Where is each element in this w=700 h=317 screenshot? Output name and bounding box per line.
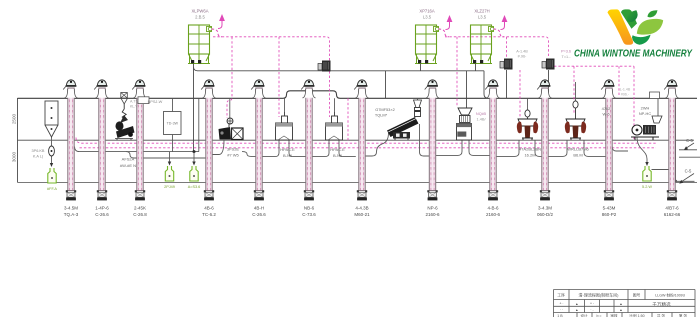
airlock ZK4 (green) [643,166,651,181]
elevator E11 boot [604,190,606,192]
dust filter F1 [189,25,210,54]
svg-text:47A2BL2BN: 47A2BL2BN [519,147,541,152]
svg-text:审核: 审核 [610,313,618,317]
svg-text:#FF.A: #FF.A [47,187,57,191]
svg-text:16.2M: 16.2M [524,153,535,158]
svg-text:2.B.5: 2.B.5 [195,15,205,20]
purifier P1 [282,116,288,123]
elevator E1 neck flare [64,89,77,98]
destoner outlets [436,139,490,155]
exhaust arrow 1 (magenta) [219,14,225,21]
svg-text:BPSJ-W: BPSJ-W [148,99,163,104]
duct drop to separator [385,71,387,99]
purifier2 outlets [312,140,356,157]
elevator E5 neck flare [252,89,265,98]
airlock ZK3 (green) [190,166,198,181]
svg-text:比例 1:50: 比例 1:50 [629,313,644,317]
col11 to fan pipe [612,147,628,152]
svg-text:4-4.3B: 4-4.3B [355,206,368,211]
svg-text:2160-6: 2160-6 [486,212,501,217]
aspiration drop to purifier 1 [278,37,280,117]
mill B1 feed spout [229,98,231,118]
elevator E11 neck flare [602,89,615,98]
svg-text:2-45K: 2-45K [134,206,146,211]
elevator E5 boot [254,190,256,192]
svg-text:L-1.4B: L-1.4B [620,88,631,92]
svg-text:WRLLB7M6: WRLLB7M6 [567,147,589,152]
pipe run col1 to junction [75,147,200,152]
vibro separator TQLZ [417,98,419,100]
elevator E7 head [357,80,366,86]
svg-text:4B-H: 4B-H [254,206,264,211]
svg-text:2160-6: 2160-6 [425,212,440,217]
svg-text:3-4.3M: 3-4.3M [538,206,552,211]
svg-text:C-73.6: C-73.6 [302,212,316,217]
elevator E8 boot [427,190,429,192]
right downspout pipe [674,98,676,181]
right exit pipe [679,156,700,158]
svg-text:860-P2: 860-P2 [602,212,617,217]
logo mark: bottom swoosh [632,35,651,45]
svg-text:5.2.W: 5.2.W [642,185,652,189]
svg-text:XLZ27H: XLZ27H [474,9,489,14]
elevator column E3 body [137,88,143,191]
svg-text:L3.5: L3.5 [423,15,432,20]
aspiration duct main west segment (dashed magenta) [213,37,330,117]
svg-text:W-6: W-6 [602,112,609,117]
feeder box TD-3W [164,112,182,135]
aspiration drop at 619 [618,66,620,97]
drop to airlock bottle 2 [193,152,195,163]
svg-text:NQ#5: NQ#5 [476,111,486,116]
dust duct main horizontal [194,63,488,152]
svg-text:共 张: 共 张 [657,313,666,317]
svg-text:· -: · - [590,308,593,312]
second spout drop near col4 [198,98,200,151]
aspiration drop to mill B1 [227,37,232,118]
blower K1 [318,64,322,71]
slide gate near fan [650,92,660,99]
separator outlets [365,124,429,156]
svg-text:2500: 2500 [12,113,17,124]
svg-text:▲: ▲ [575,308,578,312]
discharge fan unit [652,116,662,123]
feeder box discharge [172,135,174,152]
elevator E8 head [428,80,437,86]
exhaust arrow 3 (magenta) [502,15,508,22]
logo mark: yellow W stroke [608,9,634,44]
elevator E7 boot [357,190,359,192]
svg-text:C-5: C-5 [686,138,693,143]
svg-text:千万精选: 千万精选 [652,301,671,308]
aspiration drop to destoner [456,37,458,107]
logo mark: small top right leaf [648,10,658,17]
svg-text:NP-6: NP-6 [427,206,438,211]
scourer S1 (maroon) [525,110,530,117]
aspiration pickup at col7 [347,98,349,142]
svg-text:TQLM*: TQLM* [375,113,388,118]
fan inlet funnel line [657,98,659,116]
pre-cleaner assembly [121,93,128,99]
svg-text:NP-HC: NP-HC [639,111,652,116]
elevator E12 neck flare [665,89,678,98]
elevator column E2 body [99,88,105,191]
mid floor line (bench level) [18,139,695,141]
elevator E3 head [135,80,144,86]
svg-text:B-N6: B-N6 [333,153,343,158]
svg-text:K.A L): K.A L) [33,155,44,159]
elevator E12 boot [667,190,669,192]
ground floor line [18,181,698,183]
bottle4 to col12 [652,169,669,171]
feeder box inlet [172,98,174,111]
logo mark: dark leaf top [627,10,638,22]
aspiration branch blower2 to scourer [554,66,634,140]
aspiration drop to blower 1 [506,37,508,58]
elevator E1 head [66,80,75,86]
elevator E10 neck flare [538,89,551,98]
elevator E2 neck flare [95,89,108,98]
aspiration duct main east segment (dashed magenta) [445,37,549,58]
svg-text:6162-66: 6162-66 [664,212,681,217]
svg-text:060-D/2: 060-D/2 [537,212,554,217]
svg-text:KL.V: KL.V [130,105,138,109]
svg-text:#7 W5: #7 W5 [227,153,239,158]
airlock ZK2 (green) [165,166,173,181]
elevator column E9 body [490,88,496,191]
mill B1 outlet to col4 [213,140,225,155]
left frame vertical wall [17,98,19,183]
svg-text:3-4.5M: 3-4.5M [64,206,78,211]
svg-text:C-5: C-5 [685,169,692,174]
scourer1 outlets [496,140,542,156]
elevator E2 head [97,80,106,86]
svg-text:3FS2E: 3FS2E [227,147,240,152]
svg-text:4762: 4762 [602,106,611,111]
blower1 drop to gallery [506,70,508,98]
drop to airlock bottle 1 [169,152,171,163]
svg-text:L3.5: L3.5 [478,15,487,20]
svg-text:4/B7-6: 4/B7-6 [665,206,679,211]
svg-text:HPAC.E: HPAC.E [280,147,295,152]
svg-text:图号: 图号 [633,292,641,297]
svg-text:HPAC.E: HPAC.E [330,147,345,152]
hopper discharge line [51,137,53,164]
svg-text:4B-6: 4B-6 [204,206,214,211]
dust filter F2 [416,25,437,54]
left frame top floor line / gallery line [18,91,698,99]
svg-text:#W-#E N: #W-#E N [120,163,136,168]
svg-text:TQ.A-3: TQ.A-3 [64,212,79,217]
svg-text:A-1.4B: A-1.4B [516,50,528,54]
purifier2 feed [334,98,336,116]
svg-text:M60-21: M60-21 [354,212,370,217]
svg-text:XLPW6A: XLPW6A [192,9,209,14]
svg-text:▲: ▲ [575,302,578,306]
svg-text:2WH: 2WH [641,106,650,111]
svg-text:TC-6.2: TC-6.2 [202,212,216,217]
svg-text:设计: 设计 [580,313,588,317]
elevator E2 boot [97,190,99,192]
roller mill B1 [227,118,233,124]
elevator E3 neck flare [133,89,146,98]
svg-text:1.4B/: 1.4B/ [476,117,486,122]
svg-text:C-26.8: C-26.8 [133,212,147,217]
junction node [193,150,196,153]
pneumatic lift duct upper (dashed magenta) [76,138,656,144]
flow balancer (spindle) [49,146,55,156]
svg-text:LLGW-制粉/100t/d: LLGW-制粉/100t/d [655,292,685,297]
scourer1 feed [527,98,529,111]
svg-text:3000: 3000 [12,151,17,162]
elevator column E4 body [206,88,212,191]
elevator E6 head [304,80,313,86]
aspiration feeds to scourers [520,66,574,117]
purifier1 outlets [262,140,306,157]
svg-text:5-43M: 5-43M [603,206,616,211]
pneumatic lift duct lower (dashed magenta) [80,147,657,149]
logo mark: big light leaf [637,19,663,35]
svg-text:B-N6: B-N6 [283,153,293,158]
svg-text:CHINA WINTONE MACHINERY: CHINA WINTONE MACHINERY [574,49,693,60]
svg-text:A=S3.6: A=S3.6 [188,185,201,189]
elevator E4 head [204,80,213,86]
blower2 drop to gallery [548,70,550,98]
svg-text:▲: ▲ [619,308,622,312]
svg-text:B6.M: B6.M [573,153,582,158]
svg-text:+ -: + - [590,302,594,306]
pipe lower run to col4 [126,152,206,158]
svg-text:AFS2A: AFS2A [122,157,135,162]
elevator E9 boot [488,190,490,192]
elevator column E12 body [669,88,675,191]
duct drop to destoner [466,71,468,108]
svg-text:#.96-: #.96- [518,55,527,59]
svg-text:A.TM: A.TM [130,100,139,104]
svg-text:TD-3W: TD-3W [167,122,179,126]
elevator E12 head [667,80,676,86]
scourer S2 (maroon) [573,101,578,108]
svg-text:4-B-6: 4-B-6 [487,206,499,211]
svg-text:▲: ▲ [619,302,622,306]
destoner stack [458,108,472,115]
elevator column E6 body [306,88,312,191]
blower K3 [542,62,546,69]
svg-text:工序: 工序 [557,292,565,297]
svg-text:1-4P-6: 1-4P-6 [95,206,109,211]
scourer2 feed [575,82,577,101]
elevator column E1 body [68,88,74,191]
elevator E9 head [488,80,497,86]
elevator E6 neck flare [302,89,315,98]
svg-text:C-26.6: C-26.6 [95,212,109,217]
elevator column E8 body [429,88,435,191]
title block table [554,290,696,317]
svg-text:G7MF53×2: G7MF53×2 [375,107,395,112]
logo mark: green W stroke [621,9,637,28]
purifier P2 [332,116,338,123]
elevator E4 boot [204,190,206,192]
elevator E6 boot [304,190,306,192]
svg-text:#96.-: #96.- [621,93,630,97]
exhaust arrow 2 (magenta) [447,15,453,22]
slide gate at col3 [138,97,149,104]
fan discharge to bottle 4 [637,137,647,163]
svg-text:2PJ49: 2PJ49 [164,185,175,189]
airlock ZK1 (green) [48,168,56,183]
scourer2 outlets [548,140,606,156]
svg-text:NB-6: NB-6 [304,206,315,211]
svg-text:· ·: · · [560,308,563,312]
svg-text:+ ·: + · [559,302,563,306]
elevator column E11 body [606,88,612,191]
elevator E9 neck flare [486,89,499,98]
chute C-5 lower [677,180,695,182]
svg-text:T=1.-: T=1.- [562,55,572,59]
elevator E10 boot [540,190,542,192]
svg-text:3P6.KB: 3P6.KB [32,149,45,153]
elevator column E7 body [359,88,365,191]
elevator E5 head [254,80,263,86]
svg-text:清-理流程图(制粉车间): 清-理流程图(制粉车间) [579,292,620,298]
svg-text:XP716A: XP716A [419,9,435,14]
mill discharge to col5 [242,152,256,157]
elevator E4 neck flare [202,89,215,98]
intake hopper [45,101,58,125]
svg-text:P=3.6: P=3.6 [561,50,571,54]
elevator E3 boot [135,190,137,192]
elevator E10 head [540,80,549,86]
elevator column E10 body [542,88,548,191]
svg-text:C-26.6: C-26.6 [252,212,266,217]
purifier1 feed [284,98,286,116]
elevator E7 neck flare [355,89,368,98]
dust filter F3 [471,25,492,54]
elevator E11 head [604,80,613,86]
chute C-5 upper [679,149,697,151]
elevator E1 boot [66,190,68,192]
elevator column E5 body [256,88,262,191]
elevator E8 neck flare [426,89,439,98]
svg-text:第 张: 第 张 [679,313,688,317]
blower K2 [500,62,504,69]
filter outlet curls (magenta) [212,29,505,37]
